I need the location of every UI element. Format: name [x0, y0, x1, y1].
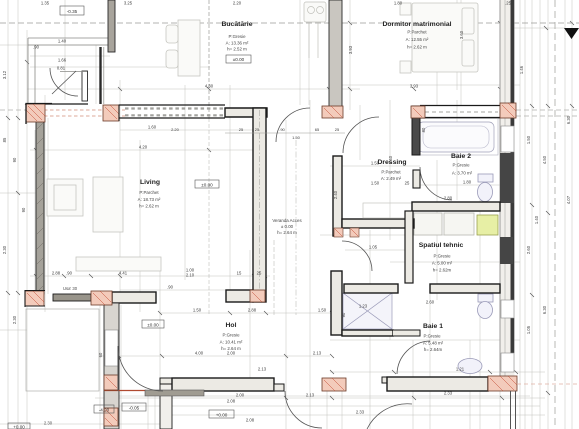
svg-text:P:Gresie: P:Gresie — [423, 334, 441, 339]
svg-text:4.50: 4.50 — [542, 155, 547, 164]
svg-text:85: 85 — [2, 137, 7, 142]
svg-text:6.30: 6.30 — [542, 305, 547, 314]
entry door leaf diagonal — [52, 71, 76, 94]
level bottom-left cut box — [8, 423, 30, 429]
level -4.20 — [94, 405, 114, 413]
svg-text:25: 25 — [255, 127, 260, 132]
room label bucatarie — [222, 21, 253, 63]
green highlight box — [477, 215, 498, 235]
door arc entry — [118, 346, 163, 391]
wall baie2 south — [412, 202, 500, 211]
svg-text:A: 10.41 m²: A: 10.41 m² — [220, 340, 243, 345]
level +0.00 bottom — [209, 410, 234, 418]
fixtures baie1 sink — [458, 359, 482, 374]
level -0.35 — [60, 6, 84, 15]
svg-text:Dormitor matrimonial: Dormitor matrimonial — [382, 21, 451, 28]
room label baie1 — [423, 323, 444, 352]
wall north band caps — [27, 104, 500, 118]
svg-text:1.50: 1.50 — [371, 161, 380, 166]
svg-text:6.30: 6.30 — [566, 115, 571, 124]
svg-text:25: 25 — [405, 181, 410, 186]
svg-text:4.30: 4.30 — [205, 84, 214, 89]
svg-text:Living: Living — [140, 179, 160, 186]
svg-text:2.40: 2.40 — [333, 190, 338, 199]
svg-text:.90: .90 — [66, 271, 72, 276]
fixtures baie1 shower — [343, 293, 392, 329]
threshold gray band — [145, 390, 204, 396]
furniture kitchen sink top — [304, 2, 326, 58]
fixtures baie1 toilet — [478, 294, 494, 319]
svg-text:A: 12.55 m²: A: 12.55 m² — [406, 37, 429, 42]
svg-text:1.60: 1.60 — [148, 125, 157, 130]
svg-text:h= 2.62 m: h= 2.62 m — [139, 204, 159, 209]
svg-text:25: 25 — [239, 127, 244, 132]
wall sptehnic/baie1 south — [344, 284, 398, 293]
wall L central top — [225, 108, 267, 117]
svg-text:1.50: 1.50 — [193, 308, 202, 313]
svg-text:2.33: 2.33 — [356, 410, 365, 415]
svg-text:Veranda Acces: Veranda Acces — [272, 218, 302, 223]
svg-text:Spatiul tehnic: Spatiul tehnic — [419, 242, 464, 249]
svg-text:A: 18.73 m²: A: 18.73 m² — [138, 197, 161, 202]
wall west lower wing — [104, 303, 119, 429]
svg-text:1.66: 1.66 — [58, 58, 67, 63]
svg-text:.90: .90 — [167, 285, 173, 290]
furniture living sofa — [47, 177, 161, 271]
dimension texts scattered — [52, 84, 472, 404]
north triangle — [564, 28, 579, 39]
svg-text:2.08: 2.08 — [227, 399, 236, 404]
wall bedroom west gray — [329, 0, 342, 107]
wall exterior east — [500, 0, 515, 391]
svg-text:2.10: 2.10 — [186, 273, 195, 278]
wall central bottom cap — [226, 290, 253, 302]
wall south hol band — [160, 378, 172, 384]
threshold red line — [104, 390, 146, 392]
svg-text:1.80: 1.80 — [463, 180, 472, 185]
svg-text:P:Parchet: P:Parchet — [407, 30, 427, 35]
furniture bed dormitor — [400, 3, 478, 73]
svg-text:2.13: 2.13 — [313, 351, 322, 356]
door arc baie2 — [420, 167, 452, 200]
svg-text:A: 5.00 m²: A: 5.00 m² — [432, 261, 453, 266]
svg-text:2.30: 2.30 — [44, 421, 53, 426]
svg-text:P:Gresie: P:Gresie — [222, 333, 240, 338]
svg-text:90: 90 — [21, 207, 26, 212]
dashed axis right — [554, 0, 556, 429]
door arc south porch1 — [285, 391, 322, 428]
svg-text:Hol: Hol — [226, 322, 237, 329]
door arc hol north — [276, 108, 310, 142]
svg-text:.25: .25 — [505, 1, 511, 6]
svg-text:h= 2.64 m: h= 2.64 m — [277, 230, 297, 235]
door arc terrace — [50, 68, 78, 96]
svg-text:Usa' 30: Usa' 30 — [63, 286, 78, 291]
svg-text:1.50: 1.50 — [371, 181, 380, 186]
svg-text:A: 3.70 m²: A: 3.70 m² — [452, 171, 473, 176]
wall dressing west — [333, 156, 342, 236]
svg-text:A: 2.49 m²: A: 2.49 m² — [381, 176, 402, 181]
wall baie1 west — [331, 271, 342, 335]
svg-text:2.30: 2.30 — [2, 245, 7, 254]
svg-text:+0.00: +0.00 — [216, 413, 228, 418]
svg-text:± 0.00: ± 0.00 — [281, 224, 294, 229]
svg-text:90: 90 — [12, 157, 17, 162]
wall entry vestibule east — [99, 47, 101, 104]
svg-text:1.80: 1.80 — [394, 1, 403, 6]
dimension row under band — [225, 132, 345, 134]
svg-text:P:Gresie: P:Gresie — [228, 34, 246, 39]
room label baie2 — [451, 153, 473, 176]
wall sptehnic west — [405, 211, 413, 283]
svg-text:4.07: 4.07 — [566, 195, 571, 204]
svg-text:A: 5.48 m²: A: 5.48 m² — [423, 341, 444, 346]
fixtures baie2 toilet — [478, 174, 494, 202]
svg-text:2.13: 2.13 — [258, 367, 267, 372]
svg-text:2.60: 2.60 — [526, 245, 531, 254]
svg-text:P:Parchet: P:Parchet — [381, 170, 401, 175]
svg-text:4.41: 4.41 — [119, 271, 128, 276]
wall west living — [36, 118, 44, 294]
svg-text:A: 13.36 m²: A: 13.36 m² — [226, 41, 249, 46]
svg-text:±0.00: ±0.00 — [233, 57, 245, 62]
svg-text:Bucătărie: Bucătărie — [222, 21, 253, 28]
svg-text:2.88: 2.88 — [52, 271, 61, 276]
svg-text:3.93: 3.93 — [410, 84, 419, 89]
wall dressing south — [342, 219, 414, 228]
svg-text:.90: .90 — [33, 45, 39, 50]
svg-text:1.35: 1.35 — [41, 1, 50, 6]
svg-text:2.88: 2.88 — [248, 308, 257, 313]
svg-text:3.60: 3.60 — [459, 30, 464, 39]
svg-text:15: 15 — [237, 271, 242, 276]
room label sptehnic — [419, 242, 464, 273]
terrace SW thin outline — [26, 309, 99, 391]
door arc dressing — [343, 117, 379, 153]
svg-text:0.81: 0.81 — [57, 66, 66, 71]
svg-text:±0.00: ±0.00 — [201, 183, 213, 188]
svg-text:2.33: 2.33 — [444, 391, 453, 396]
svg-text:P:Parchet: P:Parchet — [139, 190, 159, 195]
room label hol — [220, 322, 243, 351]
svg-text:2.40: 2.40 — [388, 155, 393, 164]
svg-text:3.93: 3.93 — [348, 45, 353, 54]
svg-text:4.20: 4.20 — [139, 145, 148, 150]
fixtures baie2 bathtub — [418, 122, 494, 152]
entry door frame — [82, 71, 88, 101]
svg-text:1.50: 1.50 — [292, 135, 301, 140]
svg-text:60: 60 — [98, 352, 103, 357]
wall baie2 west — [412, 106, 420, 155]
svg-text:4.00: 4.00 — [195, 351, 204, 356]
svg-text:Baie 2: Baie 2 — [451, 153, 471, 160]
svg-text:65: 65 — [315, 127, 320, 132]
svg-text:+0.00: +0.00 — [13, 425, 25, 429]
door arc sptehnic — [342, 241, 372, 271]
svg-text:1.40: 1.40 — [58, 39, 67, 44]
svg-text:1.21: 1.21 — [456, 367, 465, 372]
svg-text:2.08: 2.08 — [246, 418, 255, 423]
svg-text:h= 2.64m: h= 2.64m — [424, 347, 443, 352]
room label dormitor — [382, 21, 451, 50]
svg-text:2.30: 2.30 — [12, 315, 17, 324]
dashed wall band lines — [26, 110, 125, 116]
dashed axis top — [0, 22, 579, 24]
svg-text:90: 90 — [341, 312, 346, 317]
label veranda — [272, 218, 302, 235]
level -0.05 bottom — [122, 403, 146, 411]
svg-text:2.20: 2.20 — [171, 127, 180, 132]
svg-text:2.13: 2.13 — [306, 393, 315, 398]
furniture kitchen table — [166, 20, 200, 76]
svg-text:1.40: 1.40 — [534, 215, 539, 224]
svg-text:3.12: 3.12 — [2, 70, 7, 79]
room label living — [138, 179, 161, 209]
svg-text:80: 80 — [421, 127, 426, 132]
svg-text:1.05: 1.05 — [369, 245, 378, 250]
room label dressing — [377, 159, 406, 181]
svg-text:Baie 1: Baie 1 — [423, 323, 443, 330]
svg-text:1.50: 1.50 — [526, 135, 531, 144]
wall central vertical — [253, 108, 266, 302]
svg-text:h= 2.62m: h= 2.62m — [433, 268, 452, 273]
windows east wall — [501, 126, 514, 372]
svg-text:P:Gresie: P:Gresie — [433, 254, 451, 259]
svg-text:-0.05: -0.05 — [129, 406, 140, 411]
svg-text:25: 25 — [257, 271, 262, 276]
SE wall lines below band — [511, 391, 516, 429]
svg-text:±0.00: ±0.00 — [147, 323, 159, 328]
svg-text:1.23: 1.23 — [359, 304, 368, 309]
svg-text:h= 2.62 m: h= 2.62 m — [407, 45, 427, 50]
svg-text:1.46: 1.46 — [519, 65, 524, 74]
wall shower curb — [342, 330, 393, 336]
red columns — [25, 103, 517, 426]
svg-text:2.80: 2.80 — [444, 196, 453, 201]
svg-text:2.00: 2.00 — [236, 393, 245, 398]
wall kitchen west gray — [108, 0, 115, 52]
svg-text:2.00: 2.00 — [227, 351, 236, 356]
svg-text:3.25: 3.25 — [124, 1, 133, 6]
dashed kitchen boundary — [208, 0, 210, 118]
wall hol south step — [160, 384, 172, 429]
svg-text:-4.20: -4.20 — [99, 408, 110, 413]
svg-text:-0.35: -0.35 — [67, 9, 78, 14]
svg-text:2.60: 2.60 — [426, 300, 435, 305]
svg-text:25: 25 — [335, 127, 340, 132]
svg-text:2.20: 2.20 — [233, 1, 242, 6]
wall south living band — [53, 292, 156, 303]
svg-text:P:Gresie: P:Gresie — [452, 163, 470, 168]
corridor axis dashed — [295, 140, 297, 315]
spatiu tehnic boxes — [414, 213, 474, 235]
svg-text:.90: .90 — [279, 127, 285, 132]
door arc baie1 — [397, 341, 430, 374]
svg-text:h= 2.52 m: h= 2.52 m — [227, 47, 247, 52]
door arc south porch2 — [367, 404, 412, 429]
svg-text:1.50: 1.50 — [318, 308, 327, 313]
level +-0.00 hol — [142, 320, 164, 328]
terrace NW thin outline — [28, 38, 108, 104]
column corner outlines — [26, 104, 52, 125]
svg-text:1.05: 1.05 — [526, 325, 531, 334]
